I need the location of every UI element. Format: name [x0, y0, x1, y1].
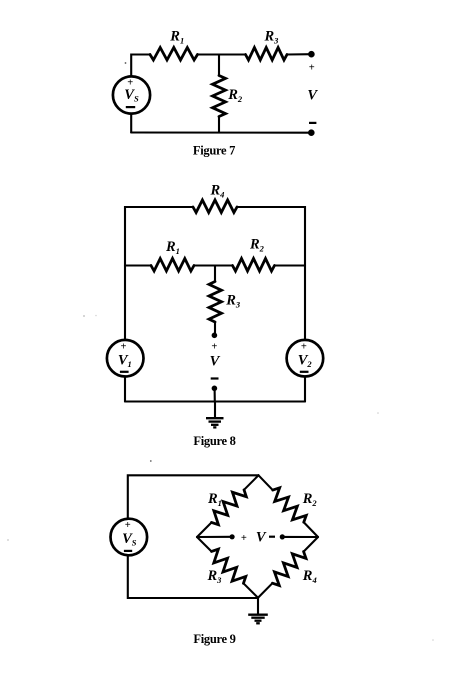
wire: Fig8 mid wire right lead: [275, 264, 306, 266]
node: Fig9 - sense dot: [280, 534, 285, 539]
wire: Fig7 R2 bottom lead to bottom wire: [218, 117, 220, 133]
voltage source VS (Fig 9): [111, 519, 148, 556]
svg-text:+: +: [241, 533, 247, 544]
resistor R1 (Fig 7): [150, 48, 198, 61]
svg-text:VS: VS: [122, 531, 137, 548]
wire: Fig8 V1 bottom lead: [124, 376, 126, 401]
svg-text:V: V: [307, 87, 318, 103]
wire: Fig8 mid wire left lead: [125, 264, 151, 266]
svg-text:Figure 8: Figure 8: [193, 434, 235, 448]
wire: Fig8 left wire from mid wire to V1: [124, 266, 126, 341]
wire: Fig8 top wire right of R4: [237, 207, 305, 266]
wire: Fig9 left bridge node to + sense dot: [197, 536, 232, 538]
svg-text:VS: VS: [124, 87, 139, 104]
svg-text:+: +: [125, 520, 131, 531]
wire: Fig8 stub from mid wire to R3: [214, 266, 216, 282]
node: Fig7 - terminal dot: [308, 129, 315, 136]
svg-text:Figure 7: Figure 7: [193, 144, 235, 158]
resistor R2 (Fig 7): [213, 76, 226, 117]
speck: scan artifact left margin mid-page: [83, 315, 85, 317]
wire: Fig8 stub from - terminal to bottom wire: [214, 388, 216, 401]
svg-text:R1: R1: [165, 239, 180, 256]
ground (Fig 8): [206, 402, 224, 428]
wire: Fig7 top middle segment R1 to R3: [198, 53, 246, 55]
svg-text:R1: R1: [169, 29, 184, 46]
wire: Fig8 top wire left of R4: [125, 207, 193, 266]
label - of output V (Fig 7): [309, 122, 316, 124]
svg-text:R4: R4: [210, 183, 225, 200]
wire: Fig8 right wire from mid wire to V2: [304, 266, 306, 341]
svg-text:R2: R2: [249, 237, 265, 254]
resistor R1 (Fig 9, bridge upper-left arm): [192, 471, 263, 542]
resistor R4 (Fig 8): [193, 200, 237, 213]
wire: Fig9 right bridge node to - sense dot: [282, 536, 318, 538]
resistor R2 (Fig 8): [233, 259, 275, 272]
svg-text:+: +: [309, 63, 315, 74]
resistor R4 (Fig 9, bridge lower-right arm): [253, 532, 322, 602]
svg-text:V: V: [256, 530, 267, 546]
node: Fig8 - terminal dot: [212, 386, 218, 392]
svg-text:V2: V2: [298, 352, 313, 369]
svg-text:+: +: [301, 342, 307, 353]
svg-text:R3: R3: [264, 29, 280, 46]
speck: scan artifact right of fig8: [377, 412, 379, 414]
svg-text:V1: V1: [118, 352, 132, 369]
wire: Fig7 top-right segment R3 to + terminal: [287, 53, 311, 55]
resistor R2 (Fig 9, bridge upper-right arm): [254, 471, 323, 542]
svg-text:+: +: [121, 342, 127, 353]
label - of output V (Fig 8): [211, 377, 219, 379]
resistor R3 (Fig 9, bridge lower-left arm): [192, 532, 262, 602]
label - of bridge output (Fig 9): [269, 536, 275, 538]
wire: Fig7 top-left segment from Vs to R1: [131, 55, 150, 77]
speck: scan artifact left edge: [7, 539, 9, 541]
node: Fig8 + terminal dot: [212, 333, 218, 339]
svg-text:+: +: [211, 342, 217, 353]
svg-text:R2: R2: [227, 87, 243, 104]
svg-text:Figure 9: Figure 9: [193, 632, 235, 646]
wire: Fig7 bottom return wire: [131, 131, 311, 133]
wire: Fig7 node stub from top wire to R2: [218, 55, 220, 76]
ground (Fig 9): [248, 598, 268, 623]
svg-text:R4: R4: [302, 568, 317, 585]
svg-text:R3: R3: [207, 568, 223, 585]
voltage source VS (Fig 7): [113, 76, 150, 113]
wire: Fig7 Vs bottom lead: [130, 114, 132, 133]
svg-text:R1: R1: [207, 491, 222, 508]
resistor R3 (Fig 7): [246, 48, 288, 61]
voltage source V2 (Fig 8): [287, 340, 324, 377]
node: Fig7 + terminal dot: [308, 51, 315, 58]
voltage source V1 (Fig 8): [107, 340, 144, 377]
svg-text:V: V: [210, 354, 221, 370]
wire: Fig8 R3 lead to + terminal: [214, 322, 216, 334]
resistor R3 (Fig 8): [209, 282, 222, 323]
wire: Fig8 bottom wire: [125, 400, 305, 402]
svg-text:R3: R3: [225, 293, 241, 310]
wire: Fig8 mid wire between R1 and R2: [194, 264, 233, 266]
svg-text:R2: R2: [302, 491, 318, 508]
speck: scan artifact lower right: [432, 639, 434, 641]
wire: Fig9 top wire from Vs to bridge top vertex: [128, 475, 259, 519]
wire: Fig9 bottom wire from Vs to bridge bottom vertex: [128, 556, 258, 599]
node: Fig9 + sense dot: [230, 534, 235, 539]
speck: scan artifact left of fig7 top corner: [125, 62, 127, 64]
resistor R1 (Fig 8): [151, 259, 194, 272]
speck: scan artifact above fig9: [150, 460, 152, 462]
wire: Fig8 V2 bottom lead: [304, 376, 306, 401]
